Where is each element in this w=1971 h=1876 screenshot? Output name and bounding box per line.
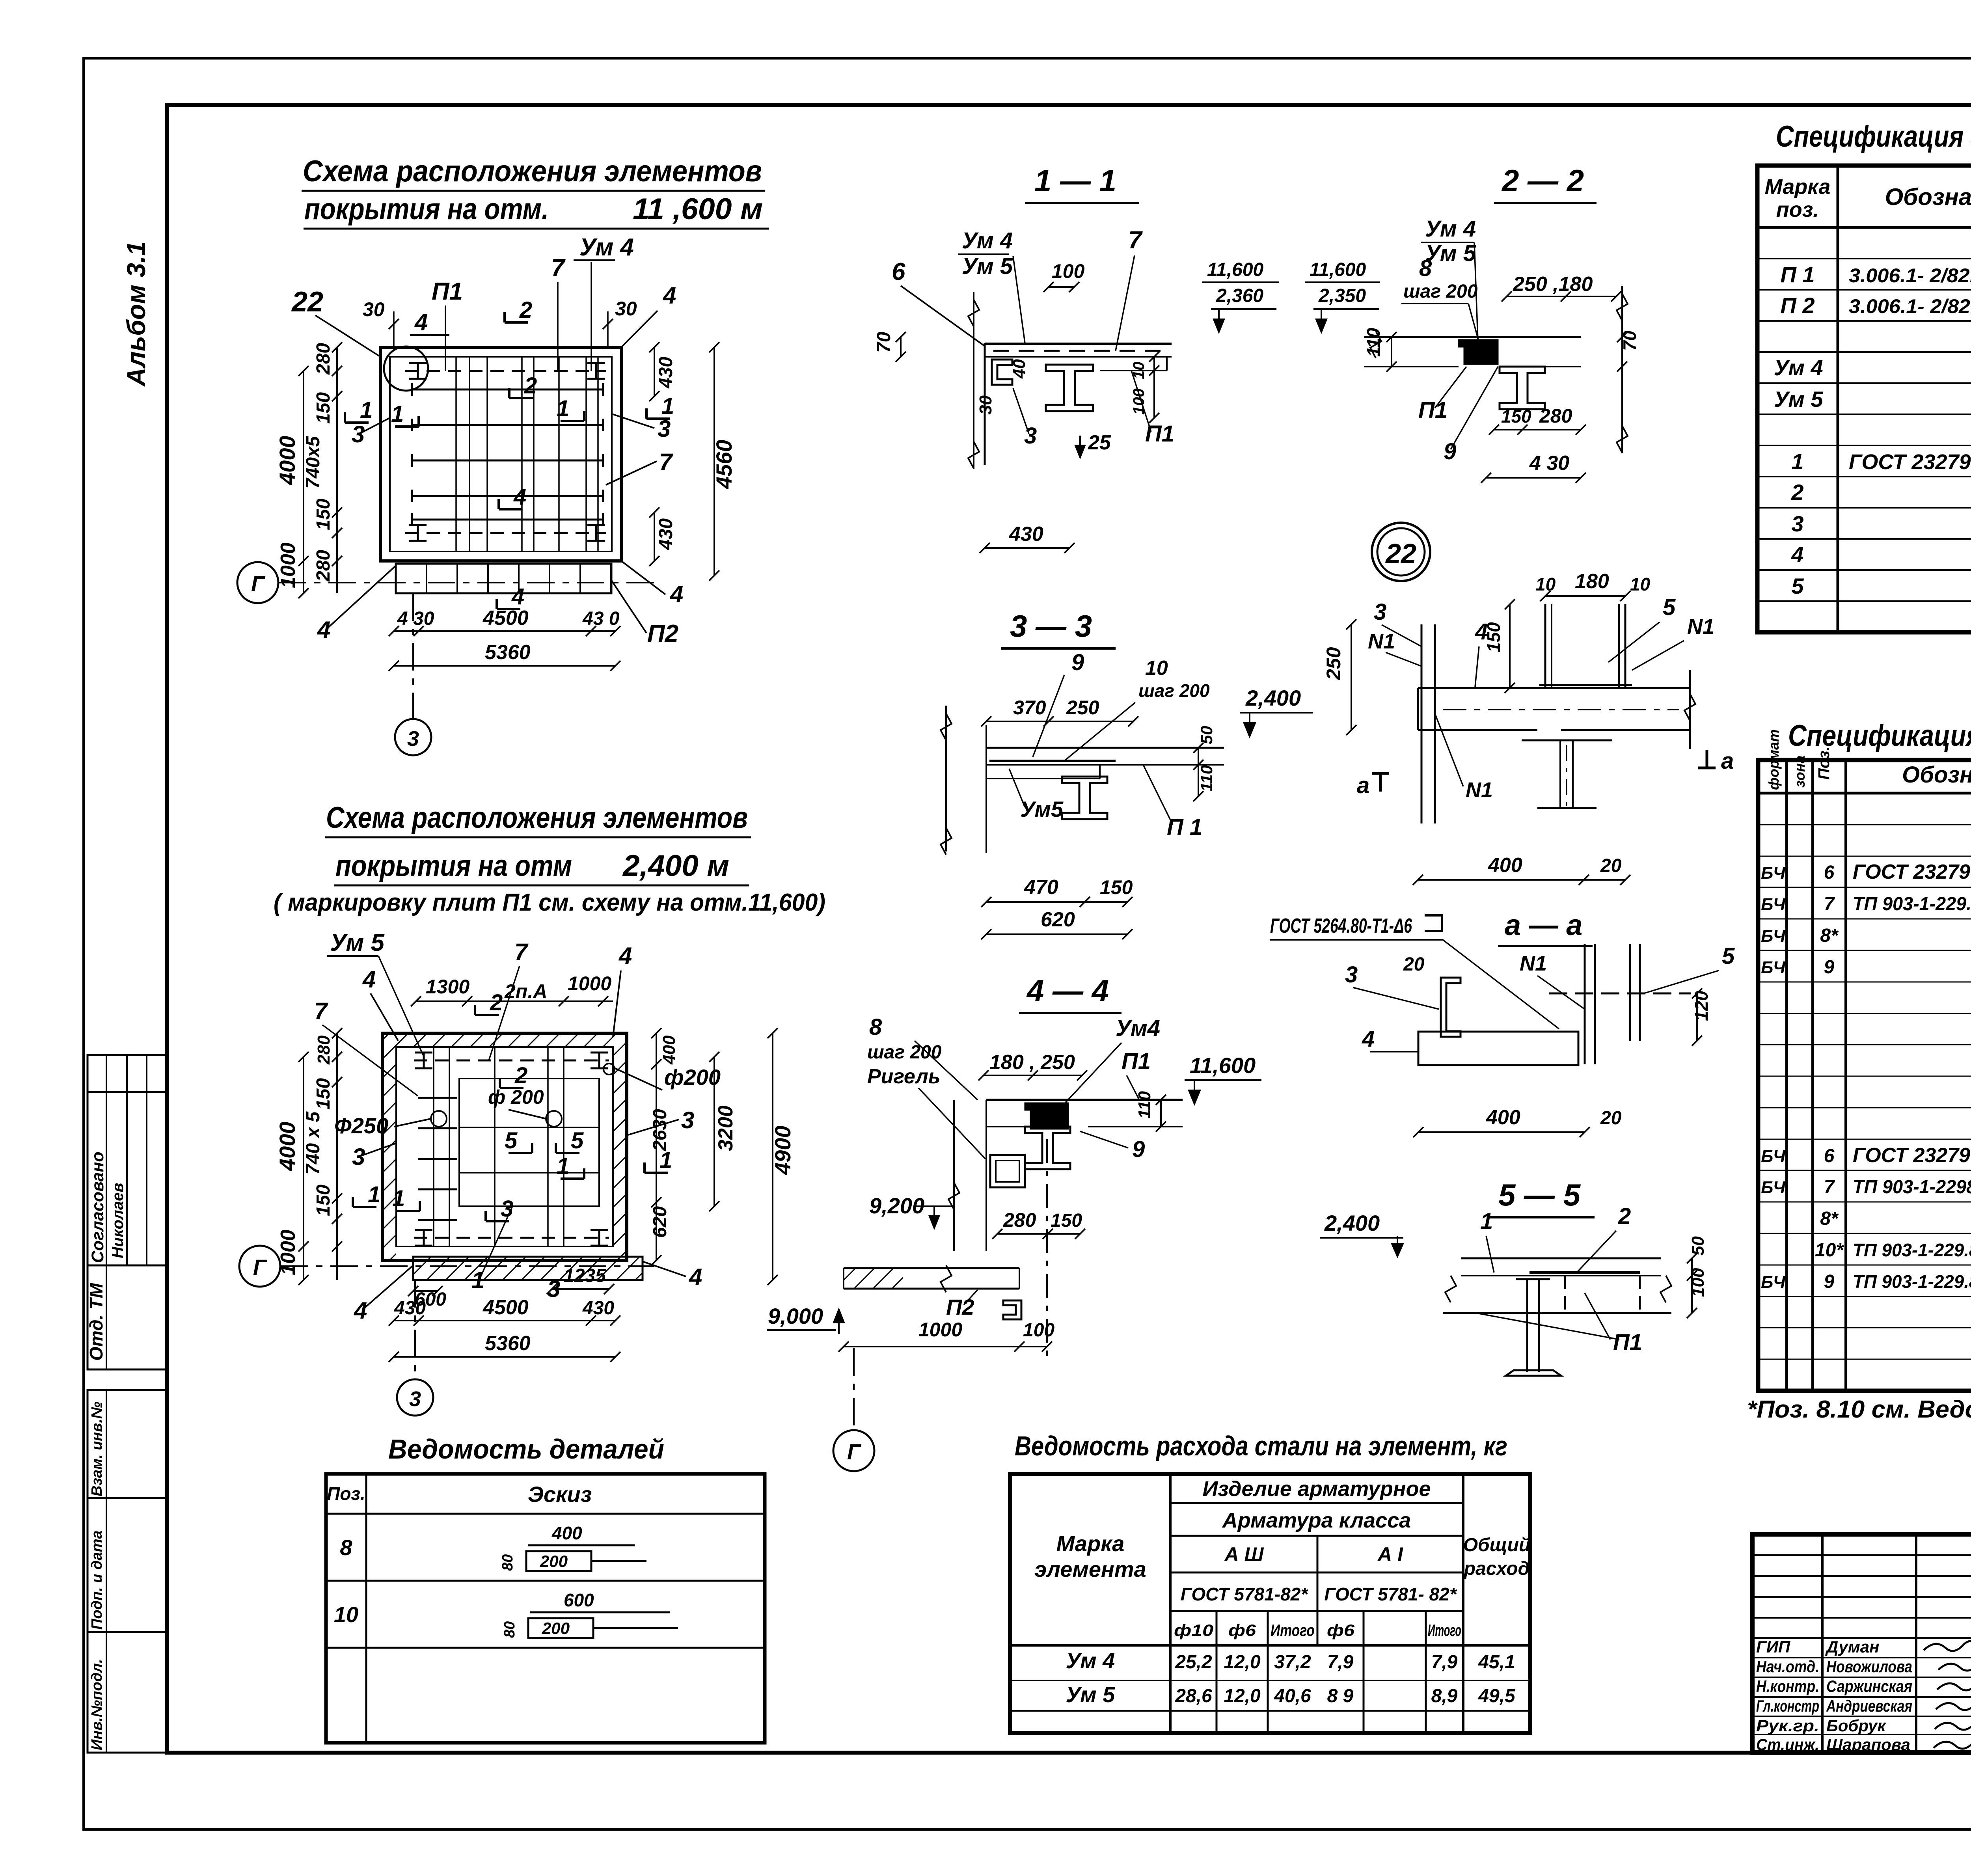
svg-text:250: 250: [1323, 647, 1345, 680]
plan1 axis 3 circle: [395, 719, 431, 755]
svg-text:40,6: 40,6: [1274, 1686, 1311, 1706]
sec55 I-beam below: [1516, 1278, 1550, 1280]
svg-text:( маркировку плит П1 см. с: ( маркировку плит П1 см. схему на отм.11…: [274, 889, 825, 916]
sec44 channel box: [990, 1155, 1025, 1187]
svg-text:400: 400: [659, 1035, 679, 1065]
svg-text:740 х 5: 740 х 5: [303, 1111, 324, 1175]
svg-text:Г: Г: [251, 571, 266, 596]
svg-text:2: 2: [1618, 1203, 1631, 1229]
svg-text:4 30: 4 30: [397, 608, 434, 629]
svg-text:зона: зона: [1792, 755, 1808, 788]
plan1 detail circle 22: [384, 347, 428, 391]
svg-text:Ум 5: Ум 5: [330, 929, 385, 956]
svg-text:ГИП: ГИП: [1756, 1638, 1790, 1656]
inv no podl box: [88, 1632, 167, 1753]
svg-text:150: 150: [1051, 1210, 1082, 1231]
svg-text:П1: П1: [1613, 1330, 1642, 1355]
sec44 slab: [986, 1099, 1183, 1101]
sec22 corner channel thick: [1459, 340, 1498, 364]
svg-text:покрытия на отм: покрытия на отм: [335, 849, 572, 883]
svg-text:400: 400: [1486, 1106, 1520, 1129]
svg-text:10: 10: [1630, 574, 1651, 594]
svg-text:7: 7: [551, 254, 566, 281]
svg-text:1: 1: [661, 393, 674, 419]
sec44 wall below: [985, 1100, 987, 1251]
sec44 corner channel dark: [1025, 1103, 1068, 1129]
svg-text:Ведомость расхода стали на эле: Ведомость расхода стали на элемент, кг: [1015, 1431, 1507, 1461]
svg-text:4: 4: [1362, 1026, 1375, 1052]
svg-text:50: 50: [1688, 1236, 1708, 1256]
a-a bottom beam: [1418, 1032, 1578, 1065]
svg-text:расход: расход: [1463, 1558, 1530, 1579]
svg-text:Арматура класса: Арматура класса: [1222, 1509, 1411, 1532]
sec11 P1 slab right: [1100, 356, 1167, 358]
svg-text:Саржинская: Саржинская: [1826, 1677, 1912, 1695]
svg-text:1: 1: [1480, 1209, 1493, 1234]
svg-text:620: 620: [1041, 908, 1075, 931]
svg-text:20: 20: [1403, 954, 1425, 975]
svg-text:Обозначение: Обозначение: [1902, 762, 1971, 788]
plan1 dashed um4 strip rect: [405, 370, 606, 372]
sec11 channel: [992, 360, 1012, 385]
svg-text:4000: 4000: [275, 1122, 300, 1171]
svg-text:430: 430: [656, 357, 676, 389]
svg-text:3: 3: [681, 1107, 694, 1133]
svg-text:10: 10: [1535, 574, 1556, 594]
svg-text:1 — 1: 1 — 1: [1034, 163, 1116, 198]
svg-text:20: 20: [1600, 855, 1622, 876]
svg-text:П 2: П 2: [1781, 293, 1815, 318]
plan2 outline walls hatched: [382, 1033, 627, 1260]
svg-text:9: 9: [1071, 650, 1084, 675]
svg-text:8*: 8*: [1820, 925, 1839, 946]
plan2 I-symbols: [415, 1052, 432, 1054]
svg-text:180 , 250: 180 , 250: [989, 1051, 1075, 1074]
svg-text:3: 3: [352, 1144, 365, 1170]
svg-text:110: 110: [1135, 1091, 1154, 1119]
svg-text:4 30: 4 30: [1529, 452, 1569, 475]
svg-text:30: 30: [976, 395, 995, 415]
svg-text:3: 3: [501, 1196, 513, 1222]
svg-text:9: 9: [1132, 1136, 1145, 1162]
table A outer box: [1757, 166, 1971, 632]
plan1 left dim 4000: [303, 371, 304, 561]
svg-text:2: 2: [1791, 480, 1803, 505]
svg-text:Спецификация элементов покры: Спецификация элементов покрытия и перекр…: [1776, 120, 1971, 153]
svg-text:8*: 8*: [1820, 1208, 1839, 1229]
svg-text:БЧ: БЧ: [1761, 1272, 1786, 1292]
svg-text:3: 3: [1791, 511, 1803, 536]
svg-text:3: 3: [407, 727, 419, 751]
svg-text:40: 40: [1010, 359, 1029, 379]
plan1 bottom dim 5360: [394, 665, 615, 667]
svg-text:80: 80: [499, 1554, 516, 1571]
svg-text:Поз.: Поз.: [1815, 746, 1833, 780]
svg-text:ф6: ф6: [1228, 1621, 1256, 1639]
svg-text:6: 6: [892, 258, 905, 285]
svg-text:Поз.: Поз.: [327, 1483, 365, 1504]
svg-text:4900: 4900: [770, 1125, 795, 1175]
svg-text:ГОСТ 5264.80-Т1-Δ6: ГОСТ 5264.80-Т1-Δ6: [1270, 915, 1412, 937]
svg-text:БЧ: БЧ: [1761, 895, 1786, 914]
svg-text:2: 2: [524, 373, 537, 399]
svg-text:5: 5: [1663, 594, 1676, 620]
svg-text:Ведомость деталей: Ведомость деталей: [388, 1434, 664, 1464]
svg-text:2: 2: [519, 297, 532, 323]
svg-text:Новожилова: Новожилова: [1826, 1657, 1912, 1676]
svg-text:7: 7: [514, 939, 529, 965]
svg-text:ГОСТ 23279-85: ГОСТ 23279-85: [1853, 861, 1971, 883]
svg-text:N1: N1: [1368, 630, 1395, 653]
svg-text:45,1: 45,1: [1478, 1652, 1515, 1673]
svg-text:Обозначение: Обозначение: [1885, 184, 1971, 210]
plan2 dashed strips: [414, 1060, 609, 1062]
svg-text:6: 6: [1824, 862, 1835, 883]
svg-text:N1: N1: [1520, 952, 1547, 975]
svg-text:9: 9: [1824, 1271, 1835, 1292]
svg-text:Ум 4: Ум 4: [962, 228, 1013, 253]
svg-text:280: 280: [313, 550, 334, 582]
svg-text:Ум 4: Ум 4: [1425, 216, 1476, 242]
a-a plates: [1584, 944, 1586, 1064]
svg-text:3: 3: [1374, 599, 1386, 625]
plan1 axis G circle: [237, 562, 278, 603]
plan2 left dims: [303, 1057, 304, 1246]
svg-text:50: 50: [1197, 726, 1216, 744]
svg-text:180: 180: [1575, 570, 1609, 593]
signatures scribbles: [1924, 1641, 1971, 1651]
svg-text:740х5: 740х5: [303, 436, 324, 489]
svg-text:Ум 5: Ум 5: [1066, 1682, 1116, 1707]
svg-text:150: 150: [313, 392, 334, 424]
svg-text:ТП 903-1-229.86 КЖ Ум 5.3.4: ТП 903-1-229.86 КЖ Ум 5.3.4: [1853, 1240, 1971, 1260]
svg-text:5 — 5: 5 — 5: [1498, 1177, 1581, 1212]
svg-text:а: а: [1357, 773, 1369, 798]
svg-text:Ум5: Ум5: [1020, 797, 1064, 822]
svg-text:ТП 903-1-229.86 КЖ.Ум4.3.1: ТП 903-1-229.86 КЖ.Ум4.3.1: [1853, 894, 1971, 915]
plan2 circles phi: [431, 1111, 447, 1127]
plan2 rebar bars: [418, 1097, 457, 1099]
svg-text:4: 4: [513, 484, 526, 510]
svg-text:Альбом 3.1: Альбом 3.1: [121, 241, 151, 387]
svg-text:11 ,600 м: 11 ,600 м: [633, 192, 763, 226]
svg-text:БЧ: БЧ: [1761, 926, 1786, 946]
svg-text:28,6: 28,6: [1175, 1686, 1212, 1706]
sec33 I-beam: [1062, 777, 1107, 819]
svg-text:4000: 4000: [275, 436, 300, 485]
plan1 bottom slab strip P2: [396, 564, 611, 593]
svg-text:22: 22: [1385, 538, 1416, 569]
svg-text:280: 280: [1003, 1209, 1036, 1231]
svg-text:Рук.гр.: Рук.гр.: [1756, 1716, 1819, 1735]
svg-text:БЧ: БЧ: [1761, 863, 1786, 883]
node22 lower ibeam: [1522, 740, 1612, 741]
svg-text:Ум 4: Ум 4: [1066, 1648, 1115, 1673]
svg-text:200: 200: [540, 1552, 568, 1570]
svg-text:430: 430: [582, 1298, 614, 1319]
svg-text:43 0: 43 0: [582, 608, 620, 629]
svg-text:N1: N1: [1466, 778, 1493, 802]
svg-text:3 — 3: 3 — 3: [1010, 609, 1092, 643]
svg-text:Н.контр.: Н.контр.: [1756, 1677, 1819, 1695]
G axis circle below 4-4: [833, 1430, 874, 1471]
svg-text:80: 80: [501, 1621, 518, 1638]
svg-text:8,9: 8,9: [1431, 1686, 1458, 1706]
svg-text:шаг 200: шаг 200: [867, 1042, 942, 1063]
svg-text:Андриевская: Андриевская: [1826, 1697, 1912, 1715]
svg-text:П 1: П 1: [1167, 814, 1202, 840]
svg-text:Шарапова: Шарапова: [1826, 1735, 1910, 1754]
svg-text:200: 200: [542, 1619, 570, 1638]
svg-text:5: 5: [1722, 943, 1735, 969]
svg-text:150: 150: [313, 1078, 334, 1110]
svg-text:20: 20: [1600, 1108, 1622, 1129]
svg-text:Взам. инв.№: Взам. инв.№: [89, 1402, 105, 1496]
svg-text:11,600: 11,600: [1190, 1053, 1256, 1078]
svg-text:Нач.отд.: Нач.отд.: [1756, 1657, 1819, 1676]
svg-text:4: 4: [1475, 619, 1488, 645]
sec11 slab: [985, 343, 1172, 345]
svg-text:4: 4: [362, 966, 376, 993]
svg-text:10*: 10*: [1815, 1240, 1844, 1261]
svg-text:250: 250: [1066, 697, 1099, 719]
svg-text:1: 1: [391, 401, 404, 427]
svg-text:12,0: 12,0: [1224, 1652, 1261, 1673]
sec33 slab: [986, 747, 1224, 749]
svg-text:4: 4: [618, 943, 632, 969]
svg-text:4: 4: [511, 584, 524, 609]
svg-text:Г: Г: [253, 1255, 268, 1280]
svg-text:1: 1: [659, 1148, 672, 1173]
svg-text:1300: 1300: [426, 976, 469, 998]
svg-text:Николаев: Николаев: [109, 1183, 127, 1258]
svg-text:ГОСТ 5781- 82*: ГОСТ 5781- 82*: [1324, 1584, 1457, 1604]
svg-text:ГОСТ 23279 - 85: ГОСТ 23279 - 85: [1853, 1144, 1971, 1167]
svg-text:Подп. и дата: Подп. и дата: [89, 1530, 105, 1630]
svg-text:4560: 4560: [712, 440, 736, 489]
svg-text:3: 3: [409, 1387, 421, 1411]
svg-text:Ум 5: Ум 5: [1425, 240, 1476, 266]
details table box: [326, 1474, 765, 1743]
svg-text:Г: Г: [847, 1439, 862, 1464]
plan1 left dim chain: [336, 347, 338, 593]
sec33 um5 drop: [986, 778, 1100, 779]
svg-text:Итого: Итого: [1428, 1621, 1461, 1639]
sec22 slab: [1364, 336, 1581, 338]
sec44 I-beam: [1025, 1127, 1070, 1169]
sec11 I-beam: [1046, 365, 1093, 411]
svg-text:формат: формат: [1766, 729, 1782, 790]
node22 vertical plate left: [1421, 624, 1423, 823]
svg-text:Марка: Марка: [1765, 175, 1831, 199]
svg-text:П1: П1: [432, 278, 463, 305]
svg-text:430: 430: [656, 518, 676, 550]
svg-text:элемента: элемента: [1034, 1557, 1146, 1582]
svg-text:ГОСТ 23279-85: ГОСТ 23279-85: [1849, 450, 1971, 474]
title block signature grid: [1821, 1534, 1824, 1753]
svg-text:Схема расположения элементов: Схема расположения элементов: [326, 801, 748, 835]
svg-text:ТП 903-1-229.86 КЖ Ум 4.3.3: ТП 903-1-229.86 КЖ Ум 4.3.3: [1853, 1271, 1971, 1292]
svg-text:БЧ: БЧ: [1761, 1147, 1786, 1166]
node 22 circle: [1372, 523, 1430, 581]
svg-text:БЧ: БЧ: [1761, 958, 1786, 977]
svg-text:1: 1: [557, 1153, 569, 1179]
svg-text:3: 3: [1345, 962, 1358, 987]
svg-text:5: 5: [571, 1128, 584, 1153]
svg-text:12,0: 12,0: [1224, 1686, 1261, 1706]
svg-text:8: 8: [869, 1014, 882, 1040]
sec33 left breakline: [945, 706, 947, 851]
sec22 I-beam: [1500, 367, 1545, 409]
sec11 wall: [973, 292, 974, 469]
svg-text:2,360: 2,360: [1216, 285, 1263, 306]
svg-text:Гл.констр: Гл.констр: [1756, 1697, 1819, 1715]
svg-text:3: 3: [352, 421, 365, 447]
svg-text:3: 3: [547, 1276, 560, 1302]
svg-text:2,400 м: 2,400 м: [622, 849, 729, 883]
svg-text:4: 4: [1791, 542, 1803, 567]
otd TM box: [88, 1265, 167, 1369]
sec44 P2 detail below: [844, 1267, 1019, 1269]
svg-text:шаг 200: шаг 200: [1138, 680, 1210, 701]
svg-text:1: 1: [557, 396, 569, 421]
svg-text:Итого: Итого: [1271, 1621, 1315, 1639]
svg-text:Схема расположения элементов: Схема расположения элементов: [303, 155, 762, 188]
svg-text:150: 150: [1100, 876, 1133, 898]
plan1 right dim 430bot: [654, 512, 655, 561]
svg-text:4: 4: [689, 1264, 702, 1290]
table B outer box: [1758, 760, 1971, 1391]
svg-text:3200: 3200: [714, 1105, 737, 1151]
svg-text:А I: А I: [1377, 1543, 1403, 1565]
plan1 right dim 430top: [654, 347, 655, 396]
svg-text:Изделие арматурное: Изделие арматурное: [1203, 1477, 1431, 1501]
svg-text:7,9: 7,9: [1327, 1652, 1354, 1673]
svg-text:10: 10: [1145, 657, 1168, 680]
svg-text:4: 4: [354, 1297, 367, 1324]
podp i data box: [88, 1498, 167, 1632]
svg-text:250 ,180: 250 ,180: [1513, 273, 1593, 296]
svg-text:П 1: П 1: [1781, 262, 1815, 287]
svg-text:11,600: 11,600: [1207, 259, 1264, 280]
svg-text:4: 4: [670, 581, 683, 607]
svg-text:а — а: а — а: [1505, 909, 1582, 941]
svg-text:7: 7: [314, 998, 328, 1024]
sec55 slab: [1461, 1257, 1661, 1259]
svg-text:150: 150: [313, 1185, 334, 1216]
svg-text:9: 9: [1824, 957, 1835, 978]
svg-text:400: 400: [1488, 854, 1522, 877]
svg-text:4: 4: [663, 282, 676, 309]
plan2 top dims 1300/1000: [416, 1000, 613, 1002]
svg-text:П1: П1: [1121, 1049, 1151, 1074]
soglasovano block: [88, 1055, 167, 1265]
plan1 plate joint lines: [455, 357, 457, 551]
svg-text:2,400: 2,400: [1324, 1211, 1380, 1235]
svg-text:7: 7: [1824, 894, 1835, 915]
svg-text:8: 8: [1419, 255, 1432, 281]
svg-text:Ст.инж.: Ст.инж.: [1756, 1735, 1819, 1754]
svg-text:ГОСТ 5781-82*: ГОСТ 5781-82*: [1181, 1584, 1309, 1604]
svg-text:Ум 4: Ум 4: [579, 234, 634, 261]
svg-text:2,400: 2,400: [1245, 686, 1301, 710]
svg-text:4: 4: [414, 309, 428, 335]
plan2 axis G: [239, 1246, 280, 1287]
svg-text:430: 430: [1009, 523, 1043, 546]
svg-text:2 — 2: 2 — 2: [1501, 163, 1584, 198]
plan1 section marks: [505, 321, 528, 324]
svg-text:110: 110: [1363, 328, 1384, 357]
svg-text:2: 2: [490, 990, 503, 1015]
svg-text:5360: 5360: [485, 1332, 531, 1355]
svg-text:БЧ: БЧ: [1761, 1178, 1786, 1197]
svg-text:1235: 1235: [564, 1265, 606, 1286]
node22 horiz member: [1418, 687, 1690, 689]
svg-text:3.006.1- 2/82.1- 1.0 - 033: 3.006.1- 2/82.1- 1.0 - 033: [1849, 295, 1971, 317]
svg-text:4: 4: [317, 617, 330, 643]
svg-text:шаг 200: шаг 200: [1403, 281, 1478, 302]
svg-text:400: 400: [551, 1523, 582, 1543]
svg-text:30: 30: [615, 298, 637, 320]
title block outer: [1752, 1534, 1971, 1753]
svg-text:7: 7: [659, 449, 673, 475]
svg-text:А Ш: А Ш: [1224, 1543, 1264, 1565]
svg-text:Отд. ТМ: Отд. ТМ: [86, 1282, 106, 1361]
svg-text:П2: П2: [647, 620, 678, 647]
svg-text:9,000: 9,000: [768, 1304, 823, 1328]
svg-text:1: 1: [360, 397, 373, 423]
svg-text:1000: 1000: [918, 1319, 962, 1341]
svg-text:N1: N1: [1687, 615, 1714, 639]
plan2 axis 3: [397, 1379, 433, 1416]
svg-text:430: 430: [394, 1298, 426, 1319]
svg-text:5: 5: [505, 1128, 518, 1153]
svg-text:1000: 1000: [568, 972, 611, 995]
svg-text:Думан: Думан: [1825, 1638, 1880, 1656]
sec11 dim 430: [985, 547, 1069, 549]
svg-text:8 9: 8 9: [1327, 1686, 1354, 1706]
plan2 right dim 4900: [772, 1033, 773, 1280]
svg-text:150: 150: [313, 499, 334, 530]
plan1 right dim 4560: [714, 347, 715, 576]
plan2 right dim chain 400/2630/620: [656, 1033, 657, 1260]
svg-text:Ф250: Ф250: [334, 1113, 388, 1138]
svg-text:150: 150: [1501, 406, 1531, 427]
svg-text:10: 10: [1130, 362, 1148, 380]
node22 right break: [1689, 670, 1691, 749]
svg-text:Ум 5: Ум 5: [962, 253, 1013, 279]
node22 top channel verticals: [1544, 604, 1546, 688]
svg-text:Бобрук: Бобрук: [1826, 1716, 1886, 1735]
svg-text:7: 7: [1824, 1177, 1835, 1198]
svg-text:280: 280: [1539, 405, 1572, 427]
svg-text:2630: 2630: [650, 1109, 671, 1151]
svg-text:Эскиз: Эскиз: [528, 1482, 592, 1507]
svg-text:ТП 903-1-22986 КЖ.Ум 4.3.1: ТП 903-1-22986 КЖ.Ум 4.3.1: [1853, 1177, 1971, 1198]
svg-text:ф 200: ф 200: [488, 1086, 544, 1108]
svg-text:620: 620: [650, 1206, 671, 1238]
svg-text:5: 5: [1791, 574, 1804, 598]
plan1 I-symbols on dashed strips: [409, 362, 427, 364]
svg-text:7: 7: [1128, 227, 1143, 254]
svg-text:6: 6: [1824, 1146, 1835, 1166]
svg-text:25,2: 25,2: [1175, 1652, 1212, 1673]
svg-text:ф10: ф10: [1174, 1621, 1213, 1639]
svg-text:1: 1: [392, 1186, 405, 1211]
svg-text:4500: 4500: [483, 1296, 529, 1319]
svg-text:70: 70: [874, 332, 894, 353]
svg-text:49,5: 49,5: [1478, 1686, 1516, 1706]
